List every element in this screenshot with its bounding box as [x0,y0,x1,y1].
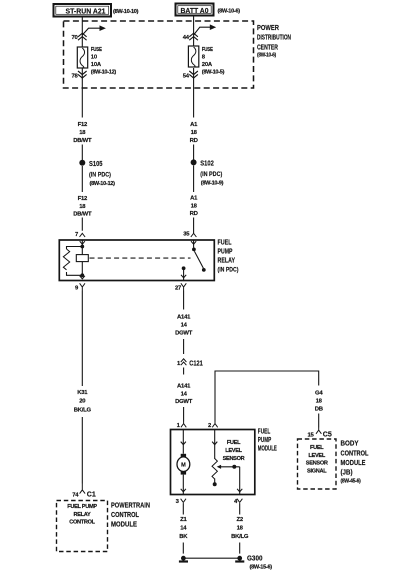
svg-text:A141: A141 [177,315,191,321]
svg-text:18: 18 [79,130,86,136]
svg-text:(8W-45-6): (8W-45-6) [341,479,361,485]
svg-text:RD: RD [190,211,198,217]
svg-text:RELAY: RELAY [218,256,236,265]
svg-text:20A: 20A [202,62,213,68]
svg-text:DISTRIBUTION: DISTRIBUTION [257,33,291,42]
svg-text:74: 74 [72,492,79,498]
svg-text:S102: S102 [200,158,214,167]
svg-text:F12: F12 [78,122,88,128]
svg-text:14: 14 [181,323,188,329]
svg-text:(8W-10-5): (8W-10-5) [202,70,225,76]
svg-text:(IN PDC): (IN PDC) [200,171,222,178]
svg-text:LEVEL: LEVEL [308,453,325,459]
svg-text:CENTER: CENTER [257,42,278,51]
svg-text:S105: S105 [89,159,103,168]
svg-text:DGWT: DGWT [175,331,193,337]
svg-text:BATT A0: BATT A0 [181,6,209,15]
svg-text:MODULE: MODULE [111,519,137,528]
svg-text:Z1: Z1 [180,517,187,523]
svg-text:RD: RD [190,138,198,144]
svg-text:FUEL PUMP: FUEL PUMP [67,504,97,510]
svg-text:POWERTRAIN: POWERTRAIN [111,501,150,510]
svg-text:(8W-10-6): (8W-10-6) [218,8,241,14]
svg-text:POWER: POWER [257,23,279,32]
svg-text:SENSOR: SENSOR [223,456,245,462]
svg-text:C1: C1 [87,489,97,498]
svg-text:G300: G300 [247,553,263,562]
svg-text:FUSE: FUSE [91,47,102,53]
svg-text:54: 54 [183,74,190,80]
svg-text:DB: DB [315,407,323,413]
svg-text:BODY: BODY [341,439,359,448]
svg-text:35: 35 [183,232,190,238]
svg-text:18: 18 [316,399,323,405]
svg-text:14: 14 [180,526,187,532]
svg-text:F12: F12 [78,196,88,202]
svg-text:(8W-10-12): (8W-10-12) [91,70,117,76]
svg-text:CONTROL: CONTROL [69,520,95,526]
svg-text:FUSE: FUSE [202,47,213,53]
svg-text:FUEL: FUEL [218,238,232,247]
svg-text:18: 18 [79,204,86,210]
svg-text:BK: BK [179,534,188,540]
svg-text:78: 78 [71,74,78,80]
svg-text:A1: A1 [190,122,198,128]
svg-text:DB/WT: DB/WT [73,138,92,144]
svg-text:SIGNAL: SIGNAL [307,468,327,474]
svg-text:BK/LG: BK/LG [231,534,249,540]
svg-text:(IN PDC): (IN PDC) [218,267,239,274]
svg-text:ST-RUN A21: ST-RUN A21 [66,7,107,16]
svg-text:A1: A1 [190,196,198,202]
svg-text:MODULE: MODULE [258,444,277,453]
svg-text:SENSOR: SENSOR [306,461,328,467]
svg-text:Z2: Z2 [237,517,244,523]
svg-text:18: 18 [191,204,198,210]
svg-text:CONTROL: CONTROL [111,510,139,519]
svg-text:DGWT: DGWT [175,399,193,405]
svg-text:A141: A141 [177,384,191,390]
svg-text:FUEL: FUEL [310,445,324,451]
svg-text:K31: K31 [77,390,88,396]
svg-text:(8W-10-9): (8W-10-9) [201,181,224,187]
svg-text:44: 44 [183,35,190,41]
svg-text:70: 70 [71,35,78,41]
svg-text:M: M [181,463,186,469]
svg-text:CONTROL: CONTROL [341,449,369,458]
svg-text:18: 18 [237,526,244,532]
svg-text:10: 10 [91,55,98,61]
svg-text:27: 27 [175,286,182,292]
svg-text:DB/WT: DB/WT [73,212,92,218]
svg-text:10A: 10A [91,62,102,68]
svg-text:(JB): (JB) [341,468,353,477]
svg-text:(8W-10-6): (8W-10-6) [257,53,276,59]
svg-text:(8W-10-10): (8W-10-10) [113,9,139,15]
svg-text:(IN PDC): (IN PDC) [89,171,111,178]
svg-text:20: 20 [79,399,86,405]
svg-text:FUEL: FUEL [227,440,241,446]
svg-text:18: 18 [191,130,198,136]
svg-text:BK/LG: BK/LG [74,408,92,414]
svg-text:(8W-10-12): (8W-10-12) [90,181,116,187]
svg-text:PUMP: PUMP [218,247,233,256]
svg-text:G4: G4 [315,391,323,397]
svg-text:14: 14 [181,392,188,398]
svg-text:C5: C5 [323,429,333,438]
svg-text:LEVEL: LEVEL [225,448,242,454]
svg-text:C121: C121 [189,359,203,368]
svg-text:15: 15 [308,432,315,438]
svg-text:RELAY: RELAY [74,512,92,518]
svg-text:(8W-15-6): (8W-15-6) [250,565,273,571]
svg-text:MODULE: MODULE [341,458,366,467]
